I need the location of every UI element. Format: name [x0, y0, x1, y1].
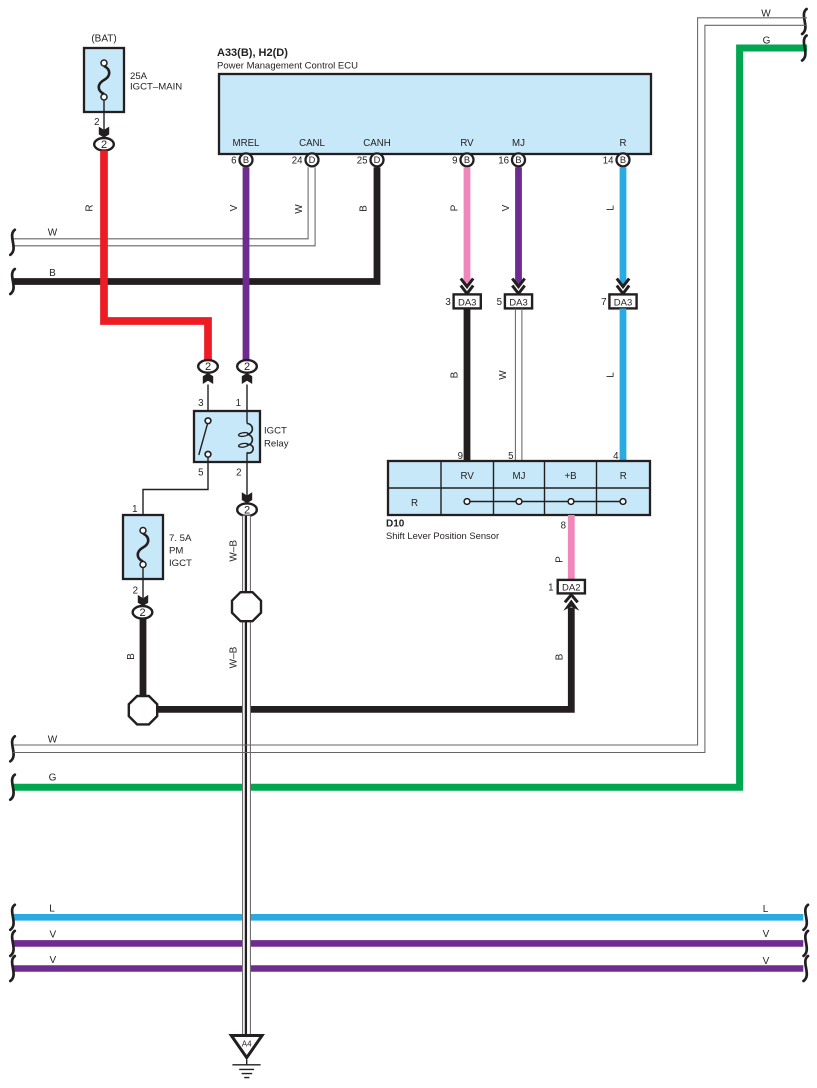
svg-text:14: 14: [603, 155, 614, 166]
svg-text:CANL: CANL: [299, 138, 325, 149]
svg-text:MJ: MJ: [513, 471, 526, 482]
svg-text:2: 2: [133, 586, 138, 597]
svg-text:IGCT: IGCT: [169, 558, 192, 569]
svg-text:B: B: [464, 155, 470, 165]
svg-text:V: V: [501, 204, 512, 211]
svg-text:RV: RV: [461, 471, 475, 482]
svg-text:V: V: [763, 929, 770, 940]
svg-text:W: W: [48, 735, 58, 746]
svg-text:D: D: [309, 155, 316, 165]
svg-text:7: 7: [601, 297, 606, 308]
svg-text:DA3: DA3: [509, 297, 527, 308]
svg-text:Shift Lever Position Sensor: Shift Lever Position Sensor: [386, 530, 499, 541]
svg-text:B: B: [450, 371, 461, 378]
svg-text:V: V: [229, 204, 240, 211]
svg-text:L: L: [606, 205, 617, 211]
svg-text:B: B: [620, 155, 626, 165]
svg-text:25A: 25A: [130, 71, 148, 82]
svg-text:16: 16: [498, 155, 509, 166]
svg-text:B: B: [126, 653, 137, 660]
svg-text:1: 1: [236, 398, 241, 409]
svg-text:Relay: Relay: [264, 439, 289, 450]
svg-text:25: 25: [357, 155, 368, 166]
svg-text:8: 8: [561, 521, 566, 532]
svg-text:B: B: [359, 205, 370, 212]
svg-text:L: L: [606, 372, 617, 378]
svg-text:B: B: [49, 268, 56, 279]
svg-text:DA3: DA3: [614, 297, 632, 308]
svg-text:3: 3: [198, 398, 203, 409]
svg-text:2: 2: [236, 468, 241, 479]
svg-text:L: L: [49, 904, 55, 915]
svg-text:B: B: [555, 653, 566, 660]
svg-text:DA2: DA2: [562, 583, 580, 594]
svg-text:B: B: [515, 155, 521, 165]
svg-text:2: 2: [94, 117, 99, 128]
svg-text:IGCT–MAIN: IGCT–MAIN: [130, 82, 182, 93]
svg-text:(BAT): (BAT): [91, 34, 116, 45]
svg-text:CANH: CANH: [363, 138, 390, 149]
svg-text:L: L: [763, 904, 769, 915]
svg-text:V: V: [49, 930, 56, 941]
svg-text:A33(B), H2(D): A33(B), H2(D): [217, 47, 288, 59]
svg-text:RV: RV: [460, 138, 474, 149]
svg-text:G: G: [49, 773, 57, 784]
svg-text:B: B: [243, 155, 249, 165]
svg-text:MJ: MJ: [512, 138, 525, 149]
svg-text:5: 5: [198, 468, 203, 479]
svg-text:Power Management Control ECU: Power Management Control ECU: [217, 61, 358, 72]
svg-text:W: W: [48, 228, 58, 239]
svg-text:P: P: [555, 556, 566, 563]
svg-text:PM: PM: [169, 546, 183, 557]
svg-text:W: W: [294, 204, 305, 214]
svg-text:IGCT: IGCT: [264, 426, 287, 437]
svg-text:D: D: [374, 155, 381, 165]
svg-text:5: 5: [497, 297, 502, 308]
svg-text:9: 9: [452, 155, 457, 166]
svg-text:+B: +B: [564, 471, 576, 482]
svg-text:24: 24: [292, 155, 303, 166]
svg-text:1: 1: [132, 504, 137, 515]
svg-text:V: V: [763, 956, 770, 967]
svg-text:3: 3: [445, 297, 450, 308]
svg-text:V: V: [49, 955, 56, 966]
svg-text:W–B: W–B: [229, 646, 240, 668]
svg-text:D10: D10: [386, 518, 405, 529]
svg-text:DA3: DA3: [458, 297, 476, 308]
svg-text:7. 5A: 7. 5A: [169, 533, 192, 544]
svg-text:R: R: [411, 498, 418, 509]
svg-text:W–B: W–B: [229, 540, 240, 562]
svg-text:P: P: [450, 204, 461, 211]
svg-text:W: W: [498, 370, 509, 380]
svg-text:A4: A4: [242, 1040, 252, 1049]
svg-text:R: R: [620, 471, 627, 482]
svg-text:1: 1: [548, 583, 553, 594]
svg-text:G: G: [763, 36, 771, 47]
svg-text:R: R: [85, 204, 96, 211]
svg-text:6: 6: [231, 155, 236, 166]
svg-text:MREL: MREL: [233, 138, 261, 149]
svg-text:R: R: [620, 138, 627, 149]
